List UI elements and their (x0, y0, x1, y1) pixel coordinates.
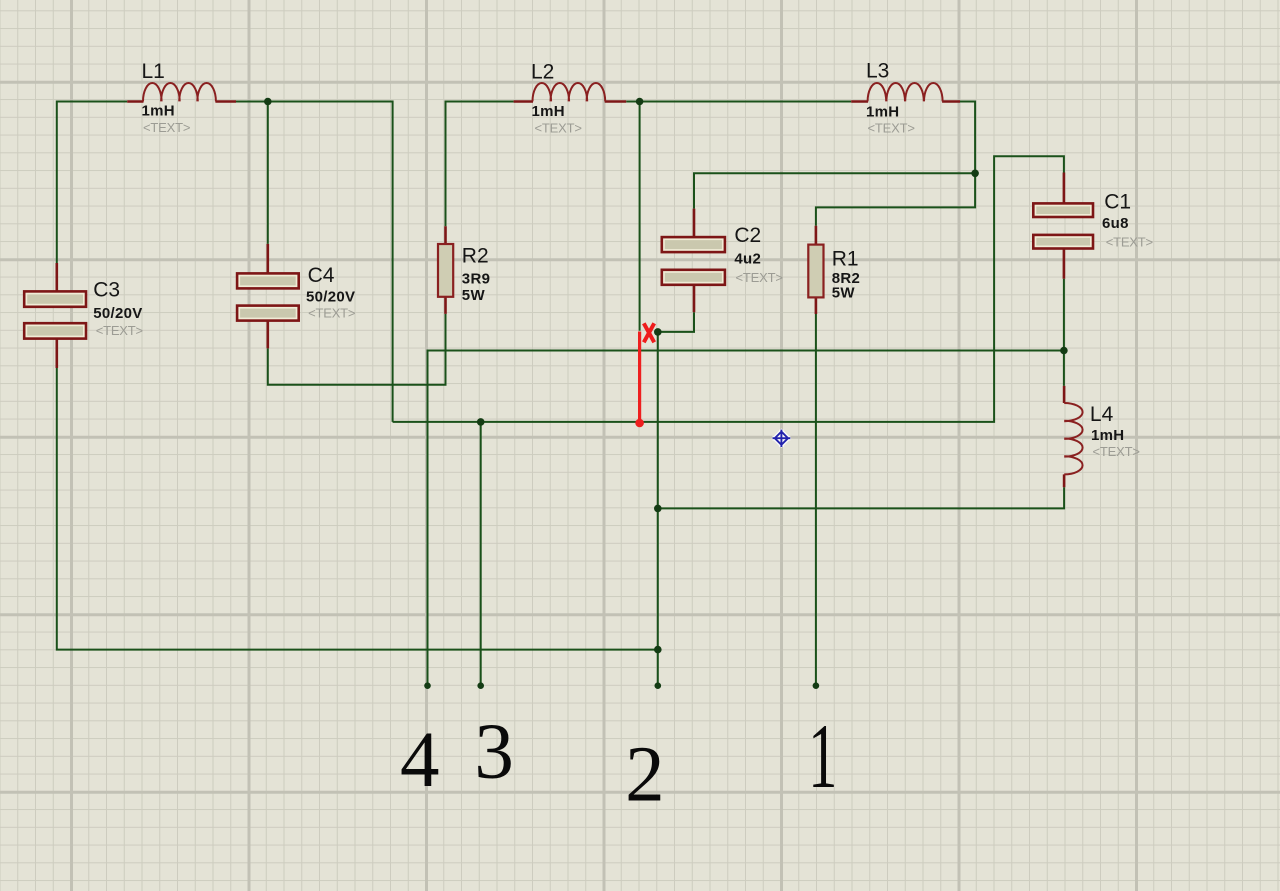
inductor L1 (127, 60, 236, 135)
C4 pin leads (266, 244, 269, 349)
C4 bottom plate (237, 306, 299, 321)
C2 pin leads (693, 209, 696, 313)
terminal 3 pin (477, 682, 484, 689)
svg-text:R1: R1 (832, 247, 859, 270)
capacitor C1 (1033, 173, 1153, 279)
svg-text:C4: C4 (308, 264, 335, 287)
svg-text:<TEXT>: <TEXT> (96, 323, 143, 338)
wire: L1 left to C3 corner (57, 102, 127, 264)
coil humps (1064, 403, 1082, 474)
C2 top plate (662, 237, 725, 252)
svg-text:L1: L1 (142, 60, 165, 83)
svg-text:2: 2 (625, 732, 665, 819)
svg-text:4u2: 4u2 (734, 251, 761, 268)
C2 bottom plate (662, 270, 725, 285)
C1 top plate (1033, 203, 1093, 217)
svg-text:1mH: 1mH (532, 103, 565, 120)
terminal 1 pin (813, 682, 820, 689)
R1 body (808, 245, 823, 298)
svg-text:L3: L3 (866, 60, 889, 83)
wire: C4 bottom link to R2 bottom (268, 314, 446, 385)
svg-text:<TEXT>: <TEXT> (868, 121, 915, 136)
wire: C2 bottom to node (658, 312, 694, 332)
C3 top plate (24, 291, 86, 306)
capacitor C3 (24, 263, 143, 368)
wire: C4 top drop (267, 102, 269, 244)
R2 pin leads (444, 226, 447, 314)
wire: rail y=350.5 with terminal-4 drop (428, 351, 1064, 686)
svg-text:50/20V: 50/20V (93, 305, 142, 322)
wire: L4 bottom rail (658, 487, 1064, 508)
svg-text:5W: 5W (462, 287, 486, 304)
svg-text:<TEXT>: <TEXT> (1093, 444, 1140, 459)
node: L2 right / dangling drop (636, 98, 644, 106)
wire: dangling drop from L2 junction (639, 102, 641, 331)
node: terminal-2 vertical / C3 bottom rail (654, 646, 662, 654)
C3 pin leads (55, 263, 58, 368)
red probe dot (635, 419, 644, 428)
L1 pin leads (127, 100, 236, 103)
terminal 2 pin (655, 682, 662, 689)
svg-text:<TEXT>: <TEXT> (143, 120, 190, 135)
coil humps (868, 83, 943, 101)
svg-text:1mH: 1mH (866, 104, 899, 121)
node: C2 bottom / terminal-2 vertical (654, 328, 662, 336)
svg-text:<TEXT>: <TEXT> (308, 305, 355, 320)
svg-text:3R9: 3R9 (462, 270, 490, 287)
svg-text:<TEXT>: <TEXT> (535, 121, 582, 136)
svg-text:L4: L4 (1090, 403, 1114, 426)
C1 pin leads (1063, 173, 1066, 279)
node: terminal-3 tap on rail y=422 (477, 418, 485, 426)
coil humps (143, 83, 216, 101)
wire: C3 bottom rail (57, 368, 658, 650)
svg-text:6u8: 6u8 (1102, 215, 1129, 232)
terminal dots (424, 682, 819, 689)
svg-text:<TEXT>: <TEXT> (1106, 235, 1153, 250)
inductor L4 (vertical) (1064, 386, 1140, 487)
wire: long horizontal rail y=422 (393, 156, 1064, 422)
wire: C2 top rail (694, 173, 975, 208)
svg-text:1mH: 1mH (142, 103, 175, 120)
node: L3 right / C2 rail (971, 170, 979, 178)
L4 pin leads (1063, 386, 1066, 487)
inductor L2 (514, 61, 627, 136)
wire: L2 right to L3 left (626, 101, 851, 103)
C4 top plate (237, 273, 299, 288)
wire: terminal-2 long vertical (657, 332, 659, 686)
capacitor C2 (662, 209, 783, 313)
blue origin marker (773, 430, 791, 447)
R1 pin leads (815, 226, 818, 314)
wire: C1 bottom to L4 top (1063, 279, 1065, 386)
svg-text:C1: C1 (1104, 191, 1131, 214)
svg-text:R2: R2 (462, 245, 489, 268)
svg-text:1mH: 1mH (1091, 427, 1124, 444)
wire: R1 top run (816, 173, 975, 225)
wire: L3 right corner down (960, 102, 975, 174)
resistor R2 (438, 226, 490, 314)
wire: terminal-3 drop (480, 422, 482, 686)
wire: L2 left segment and R2 drop (446, 102, 514, 227)
svg-text:3: 3 (474, 709, 514, 796)
L3 pin leads (851, 100, 960, 103)
svg-text:L2: L2 (531, 61, 554, 84)
red probe line (638, 332, 641, 423)
terminal 4 pin (424, 682, 431, 689)
node: C1 bottom / rail y=350 (1060, 347, 1068, 355)
wire: R1 bottom drop to terminal 1 (815, 314, 817, 686)
svg-text:5W: 5W (832, 284, 856, 301)
L2 pin leads (514, 100, 627, 103)
capacitor C4 (237, 244, 355, 349)
svg-text:4: 4 (400, 717, 440, 804)
svg-text:50/20V: 50/20V (306, 288, 355, 305)
svg-text:1: 1 (808, 705, 837, 808)
C3 bottom plate (24, 323, 86, 338)
svg-text:C2: C2 (734, 224, 761, 247)
resistor R1 (808, 226, 860, 314)
node: terminal-2 vertical / L4 bottom rail (654, 505, 662, 513)
wire: L1 right rail to vertical feeder (236, 102, 393, 422)
svg-text:C3: C3 (93, 279, 120, 302)
coil humps (533, 83, 606, 101)
R2 body (438, 244, 453, 297)
red X no-connection marker (644, 323, 654, 342)
svg-text:<TEXT>: <TEXT> (736, 270, 783, 285)
C1 bottom plate (1033, 235, 1093, 249)
node: L1 right / C4 top (264, 98, 272, 106)
inductor L3 (851, 60, 960, 136)
